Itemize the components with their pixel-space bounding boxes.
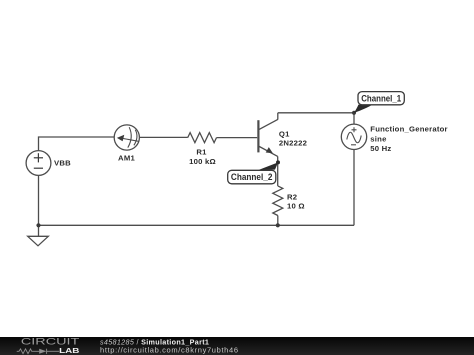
svg-text:CIRCUIT: CIRCUIT [21,337,81,347]
svg-text:sine: sine [370,135,387,144]
svg-text:R1: R1 [196,148,207,157]
svg-text:10 Ω: 10 Ω [287,202,305,211]
svg-text:Channel_1: Channel_1 [361,93,401,103]
svg-text:R2: R2 [287,192,297,201]
svg-text:Channel_2: Channel_2 [231,172,273,182]
svg-text:2N2222: 2N2222 [279,139,307,148]
svg-text:Function_Generator: Function_Generator [370,124,447,133]
svg-text:LAB: LAB [59,346,80,355]
svg-text:100 kΩ: 100 kΩ [189,157,216,166]
svg-text:AM1: AM1 [118,153,135,162]
svg-text:VBB: VBB [54,159,71,168]
svg-text:50 Hz: 50 Hz [370,144,391,153]
svg-text:Q1: Q1 [279,129,290,138]
svg-text:http://circuitlab.com/c8krny7u: http://circuitlab.com/c8krny7ubth46 [100,345,239,354]
